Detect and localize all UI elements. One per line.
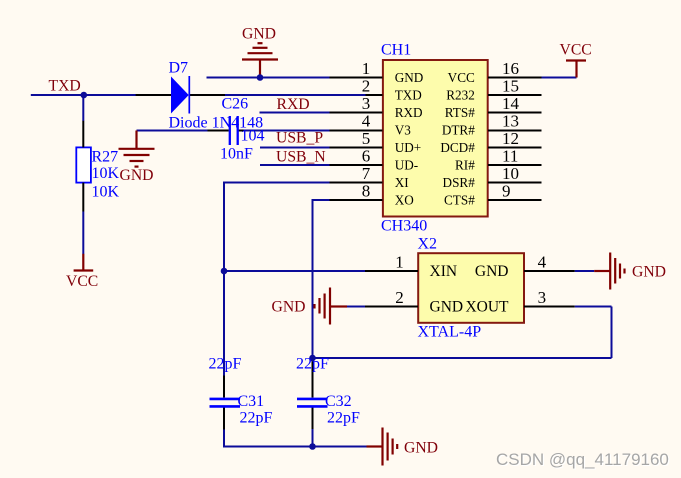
svg-text:CH1: CH1 [381, 42, 411, 59]
svg-text:2: 2 [362, 77, 371, 96]
svg-text:GND: GND [632, 264, 666, 281]
svg-text:VCC: VCC [66, 273, 98, 290]
svg-text:7: 7 [362, 164, 371, 183]
svg-text:D7: D7 [169, 60, 189, 77]
svg-text:C32: C32 [325, 393, 352, 410]
svg-text:TXD: TXD [395, 88, 422, 103]
svg-text:12: 12 [502, 129, 519, 148]
svg-text:GND: GND [120, 167, 154, 184]
svg-text:4: 4 [538, 253, 547, 272]
svg-text:22pF: 22pF [240, 410, 273, 427]
svg-text:22pF: 22pF [327, 410, 360, 427]
svg-text:10K: 10K [92, 165, 120, 182]
svg-text:DTR#: DTR# [442, 123, 475, 138]
svg-text:C26: C26 [222, 96, 249, 113]
svg-text:DCD#: DCD# [440, 140, 475, 155]
svg-text:11: 11 [502, 147, 518, 166]
svg-text:GND: GND [430, 299, 464, 316]
svg-text:R27: R27 [92, 149, 119, 166]
svg-text:4: 4 [362, 112, 371, 131]
svg-text:XIN: XIN [430, 263, 458, 280]
svg-text:22pF: 22pF [296, 356, 329, 373]
svg-text:DSR#: DSR# [443, 175, 476, 190]
svg-text:GND: GND [404, 440, 438, 457]
svg-text:RXD: RXD [277, 96, 310, 113]
svg-text:XTAL-4P: XTAL-4P [418, 324, 482, 341]
svg-text:13: 13 [502, 112, 519, 131]
svg-text:10nF: 10nF [220, 146, 253, 163]
svg-text:GND: GND [242, 26, 276, 43]
svg-text:XOUT: XOUT [465, 299, 509, 316]
svg-text:10: 10 [502, 164, 519, 183]
svg-text:8: 8 [362, 182, 371, 201]
svg-text:X2: X2 [418, 236, 438, 253]
svg-text:9: 9 [502, 182, 511, 201]
svg-text:2: 2 [395, 288, 404, 307]
svg-text:RI#: RI# [455, 158, 475, 173]
svg-text:XO: XO [395, 193, 414, 208]
svg-text:16: 16 [502, 59, 519, 78]
svg-text:3: 3 [362, 94, 371, 113]
svg-text:RXD: RXD [395, 105, 423, 120]
svg-text:15: 15 [502, 77, 519, 96]
svg-text:5: 5 [362, 129, 371, 148]
svg-text:22pF: 22pF [209, 356, 242, 373]
svg-text:1: 1 [395, 253, 404, 272]
svg-text:3: 3 [538, 288, 547, 307]
svg-text:10K: 10K [92, 184, 120, 201]
svg-text:TXD: TXD [49, 78, 81, 95]
svg-text:GND: GND [475, 263, 509, 280]
svg-text:XI: XI [395, 175, 409, 190]
svg-text:6: 6 [362, 147, 371, 166]
svg-text:1: 1 [362, 59, 371, 78]
svg-text:R232: R232 [446, 88, 475, 103]
svg-text:USB_N: USB_N [276, 149, 326, 166]
svg-text:GND: GND [395, 70, 424, 85]
svg-text:GND: GND [272, 299, 306, 316]
svg-text:CSDN @qq_41179160: CSDN @qq_41179160 [496, 450, 669, 469]
svg-text:UD+: UD+ [395, 140, 422, 155]
svg-text:USB_P: USB_P [276, 130, 323, 147]
svg-text:CTS#: CTS# [444, 193, 475, 208]
svg-text:CH340: CH340 [381, 218, 427, 235]
svg-text:14: 14 [502, 94, 520, 113]
svg-text:VCC: VCC [560, 42, 592, 59]
svg-text:C31: C31 [238, 393, 265, 410]
svg-text:RTS#: RTS# [445, 105, 475, 120]
svg-text:V3: V3 [395, 123, 412, 138]
svg-text:VCC: VCC [448, 70, 475, 85]
svg-text:104: 104 [241, 128, 265, 145]
svg-text:UD-: UD- [395, 158, 418, 173]
